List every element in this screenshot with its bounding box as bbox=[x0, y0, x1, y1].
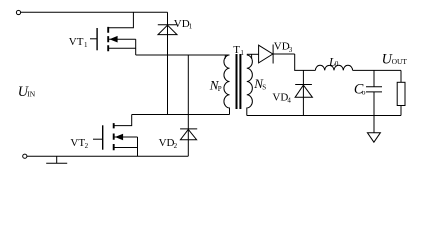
label UIN bbox=[18, 84, 36, 100]
transformer secondary winding Ns bbox=[247, 55, 253, 116]
label Np bbox=[209, 78, 222, 93]
svg-text:o: o bbox=[362, 88, 366, 97]
wire output top bbox=[353, 69, 401, 71]
svg-text:VT: VT bbox=[69, 36, 84, 48]
svg-text:VD: VD bbox=[159, 137, 175, 149]
capacitor Co bbox=[366, 70, 382, 115]
svg-text:2: 2 bbox=[174, 142, 178, 150]
wire VT2 drain bbox=[114, 115, 132, 126]
svg-text:IN: IN bbox=[27, 90, 35, 99]
wire primary top corner stub bbox=[224, 55, 226, 59]
label VT1 bbox=[69, 36, 88, 49]
svg-text:S: S bbox=[262, 84, 266, 92]
diode VD1 bbox=[158, 12, 177, 114]
label VD4 bbox=[272, 91, 291, 104]
transistor VT1 bbox=[90, 27, 136, 55]
svg-text:1: 1 bbox=[189, 23, 193, 31]
svg-text:1: 1 bbox=[240, 49, 244, 57]
label VD3 bbox=[274, 41, 293, 54]
svg-text:4: 4 bbox=[287, 97, 291, 105]
wire output bottom rail bbox=[247, 115, 401, 117]
svg-text:0: 0 bbox=[335, 60, 339, 68]
wire top rail bbox=[21, 11, 168, 13]
diode VD4 bbox=[295, 70, 312, 115]
svg-text:T: T bbox=[233, 44, 240, 56]
transistor VT2 bbox=[93, 123, 138, 156]
label L0 bbox=[328, 55, 339, 69]
inductor L0 bbox=[315, 65, 352, 70]
transformer core bbox=[237, 54, 241, 109]
svg-text:VD: VD bbox=[272, 91, 288, 103]
input terminal bottom bbox=[23, 154, 27, 158]
node B wire (VT2 drain to primary bottom) bbox=[132, 114, 230, 116]
label VD2 bbox=[159, 137, 178, 150]
wire bottom rail bbox=[27, 155, 188, 157]
node A wire (VT1 source to primary top) bbox=[136, 54, 230, 56]
ground right bbox=[367, 116, 380, 143]
ground left bbox=[46, 156, 67, 163]
label VD1 bbox=[174, 18, 193, 31]
wire VT1 drain bbox=[108, 12, 133, 27]
svg-text:OUT: OUT bbox=[392, 57, 408, 66]
svg-text:2: 2 bbox=[85, 142, 89, 150]
label VT2 bbox=[70, 137, 88, 150]
svg-text:P: P bbox=[218, 85, 222, 93]
svg-text:VT: VT bbox=[70, 137, 85, 149]
label UOUT bbox=[382, 51, 408, 67]
resistor load bbox=[397, 70, 405, 115]
svg-text:1: 1 bbox=[84, 41, 88, 49]
transformer T1 primary winding Np bbox=[224, 55, 230, 115]
diode VD2 bbox=[180, 55, 197, 156]
wire secondary top bbox=[247, 53, 259, 55]
input terminal top bbox=[16, 10, 20, 14]
label Ns bbox=[253, 76, 266, 92]
svg-text:3: 3 bbox=[289, 46, 293, 54]
wire secondary top corner stub bbox=[251, 54, 253, 58]
label T1 bbox=[233, 44, 244, 57]
wire step down from VD3 to output rail bbox=[295, 54, 316, 70]
svg-text:VD: VD bbox=[274, 41, 290, 53]
label Co bbox=[354, 81, 366, 97]
svg-text:VD: VD bbox=[174, 18, 190, 30]
diode VD3 bbox=[259, 45, 295, 64]
